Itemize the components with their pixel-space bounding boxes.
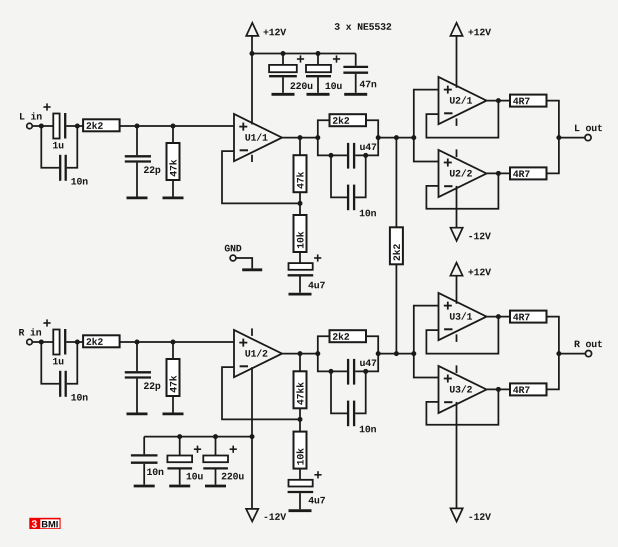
node junction xyxy=(315,135,320,140)
node junction xyxy=(329,369,334,374)
node junction xyxy=(376,135,381,140)
node junction xyxy=(298,417,303,422)
resistor 4R7 (U3/1) xyxy=(510,311,547,323)
node junction xyxy=(496,314,501,319)
resistor 47k (R input) xyxy=(167,342,180,413)
node junction xyxy=(315,351,320,356)
wire U3/2 feedback xyxy=(426,389,498,424)
wire U1/1 V+ pin xyxy=(251,54,253,125)
capacitor 10n (L input) xyxy=(41,126,87,185)
node junction xyxy=(394,135,399,140)
wire U3/2 V- pin xyxy=(456,402,458,509)
wire U1/1 V- pin stub xyxy=(251,155,253,162)
capacitor 10n (R input) xyxy=(41,342,87,401)
wire U3 input split xyxy=(414,306,439,378)
wire U2/1 V- pin stub xyxy=(456,118,458,126)
node junction xyxy=(298,135,303,140)
node junction xyxy=(316,51,321,56)
wire U1/1 output xyxy=(282,137,319,139)
capacitor 4u7 (L) xyxy=(288,254,325,292)
wire U2/2 V+ pin stub xyxy=(456,149,458,157)
wire U3/1 feedback xyxy=(426,317,498,354)
ground xyxy=(127,196,148,199)
wire xyxy=(378,353,414,355)
node junction xyxy=(177,434,182,439)
capacitor 10u (R supply) xyxy=(167,437,202,485)
node junction xyxy=(496,387,501,392)
node junction xyxy=(394,351,399,356)
op-amp U2/2 xyxy=(439,150,487,197)
node junction xyxy=(213,434,218,439)
wire U2/2 V- pin xyxy=(456,186,458,228)
node L out terminal xyxy=(575,125,602,141)
wire U1/2 output xyxy=(282,353,319,355)
resistor 10k (L) xyxy=(294,203,307,263)
ground xyxy=(289,293,312,296)
wire xyxy=(559,137,585,139)
power -12V (U2) xyxy=(451,228,491,241)
wire xyxy=(355,138,378,156)
ground xyxy=(127,412,148,415)
wire U1/1 feedback xyxy=(222,151,299,203)
capacitor u47 (L coupling) xyxy=(348,143,376,169)
node junction xyxy=(556,351,561,356)
wire U3/2 V+ pin stub xyxy=(456,365,458,373)
wire xyxy=(355,354,378,372)
capacitor u47 (R coupling) xyxy=(348,359,376,385)
capacitor 4u7 (R) xyxy=(288,471,325,509)
node junction xyxy=(376,351,381,356)
op-amp U3/2 xyxy=(439,366,487,413)
wire U2 input split xyxy=(414,90,439,162)
ground xyxy=(289,509,312,512)
node junction xyxy=(496,171,501,176)
wire xyxy=(487,388,511,390)
wire xyxy=(318,138,347,156)
ground xyxy=(344,93,367,96)
node junction xyxy=(298,351,303,356)
capacitor 10n (L coupling) xyxy=(331,155,376,216)
capacitor 220u (R supply) xyxy=(203,437,243,485)
node junction xyxy=(281,51,286,56)
net label 3 x NE5532 xyxy=(335,23,392,30)
node junction xyxy=(250,434,255,439)
node junction xyxy=(411,135,416,140)
node junction xyxy=(135,340,140,345)
node junction xyxy=(329,153,334,158)
node junction xyxy=(298,201,303,206)
wire xyxy=(33,125,54,127)
wire U1/2 V- pin xyxy=(251,367,253,436)
node junction xyxy=(411,351,416,356)
capacitor 22p (R) xyxy=(125,342,161,413)
node B junction xyxy=(75,340,80,345)
node B junction xyxy=(75,124,80,129)
wire xyxy=(120,125,234,127)
wire xyxy=(487,100,511,102)
node GND terminal xyxy=(225,245,253,269)
wire xyxy=(318,336,330,353)
wire xyxy=(559,353,585,355)
wire xyxy=(487,172,511,174)
wire U2/2 feedback xyxy=(426,173,498,208)
capacitor 10u (supply) xyxy=(306,54,342,93)
wire xyxy=(318,354,347,372)
resistor 2k2 (R coupling) xyxy=(330,330,367,342)
ground xyxy=(307,93,330,96)
wire 2k2 link up-left xyxy=(318,120,330,137)
wire xyxy=(120,341,234,343)
capacitor 1u (R input) xyxy=(43,319,83,364)
capacitor 10n (R supply) xyxy=(131,437,163,485)
wire xyxy=(33,341,54,343)
wire xyxy=(366,336,378,353)
ground xyxy=(163,412,184,415)
power +12V (U2) xyxy=(450,23,491,88)
resistor 4R7 (U2/1) xyxy=(510,95,547,107)
ground xyxy=(134,485,155,488)
wire +12V bus xyxy=(252,53,356,55)
wire xyxy=(547,354,559,390)
node junction xyxy=(363,153,368,158)
capacitor 220u (supply) xyxy=(269,54,312,93)
capacitor 22p (L) xyxy=(125,126,161,197)
node junction xyxy=(250,51,255,56)
resistor 47kk (U1/2 feedback) xyxy=(294,354,307,420)
node A junction xyxy=(39,340,44,345)
capacitor 1u (L input) xyxy=(43,103,83,148)
node junction xyxy=(171,124,176,129)
wire xyxy=(547,317,559,354)
resistor 2k2 (L input) xyxy=(83,119,120,131)
capacitor 10n (R coupling) xyxy=(331,371,376,432)
ground xyxy=(272,93,295,96)
node junction xyxy=(363,369,368,374)
power +12V (U3) xyxy=(450,263,491,304)
resistor 10k (R) xyxy=(294,419,307,479)
node R in terminal xyxy=(19,328,41,344)
node L in terminal xyxy=(20,112,42,128)
resistor 47k (L input) xyxy=(167,126,180,197)
power -12V (left) xyxy=(246,437,286,522)
wire U3/1 V- pin stub xyxy=(456,334,458,342)
wire xyxy=(366,120,378,137)
op-amp U1/2 xyxy=(234,330,282,377)
wire -12V bus xyxy=(144,436,252,438)
node A junction xyxy=(39,124,44,129)
wire xyxy=(547,101,559,138)
resistor 2k2 (R input) xyxy=(83,335,120,347)
resistor 47k (U1/1 feedback) xyxy=(294,138,307,204)
power -12V (U3) xyxy=(451,508,491,521)
wire xyxy=(378,137,414,139)
node junction xyxy=(171,340,176,345)
resistor 4R7 (U2/2) xyxy=(510,167,547,179)
node junction xyxy=(496,98,501,103)
wire xyxy=(487,316,511,318)
node R out terminal xyxy=(575,341,602,357)
op-amp U2/1 xyxy=(439,77,487,124)
power +12V (left) xyxy=(246,23,286,54)
ground xyxy=(163,196,184,199)
wire U2/1 feedback xyxy=(426,101,498,138)
resistor 2k2 (L coupling) xyxy=(330,114,367,126)
ground xyxy=(242,268,262,271)
logo 3BMI xyxy=(29,518,60,529)
node junction xyxy=(135,124,140,129)
capacitor 47n (supply) xyxy=(343,54,376,93)
resistor 2k2 (channel link) xyxy=(390,138,403,354)
ground xyxy=(169,485,190,488)
wire U1/2 feedback xyxy=(222,367,299,419)
wire U1/2 V+ pin stub xyxy=(251,328,253,336)
op-amp U1/1 xyxy=(234,114,282,161)
ground xyxy=(205,485,226,488)
op-amp U3/1 xyxy=(439,293,487,340)
node junction xyxy=(556,135,561,140)
wire xyxy=(547,138,559,174)
resistor 4R7 (U3/2) xyxy=(510,383,547,395)
